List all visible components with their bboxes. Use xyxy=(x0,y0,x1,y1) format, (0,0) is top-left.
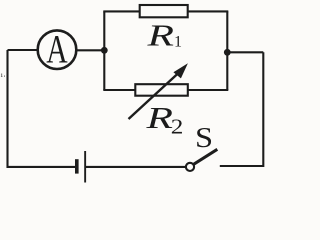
node left junction xyxy=(101,47,108,54)
wire parallel-block left vertical xyxy=(103,11,105,90)
node right junction xyxy=(224,49,231,56)
battery cell xyxy=(75,151,86,183)
wire bottom branch right xyxy=(188,89,229,91)
svg-text:A: A xyxy=(46,26,68,72)
resistor R2 (rheostat body) xyxy=(135,84,188,96)
label R1 value xyxy=(146,18,182,53)
ammeter A1 xyxy=(38,26,77,72)
wire left rail and bottom-left segment xyxy=(8,50,76,167)
wire right rail and bottom-right segment xyxy=(220,52,263,166)
resistor R1 xyxy=(140,5,188,17)
svg-text:2: 2 xyxy=(171,115,184,139)
wire bottom branch left xyxy=(103,89,135,91)
wire top branch left xyxy=(103,10,139,12)
wire right junction to right rail xyxy=(227,51,263,53)
svg-text:1: 1 xyxy=(174,34,182,51)
wire top branch right xyxy=(188,10,229,12)
label R2 value xyxy=(145,101,183,139)
wire ammeter to left junction xyxy=(76,49,104,51)
wire ammeter left feed xyxy=(8,49,39,51)
rheostat arrow for R2 xyxy=(129,63,188,119)
svg-text:R: R xyxy=(146,18,174,53)
svg-text:S: S xyxy=(195,122,213,154)
switch S xyxy=(186,149,217,171)
svg-text:R: R xyxy=(145,101,173,136)
wire parallel-block right vertical xyxy=(226,11,228,90)
svg-text:·¹‧: ·¹‧ xyxy=(0,72,6,81)
wire battery to switch xyxy=(86,166,186,168)
